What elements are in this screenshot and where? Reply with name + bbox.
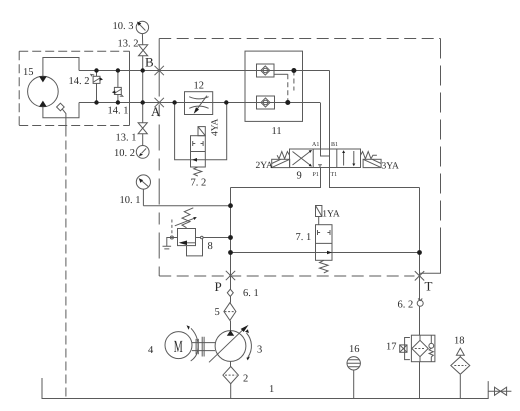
svg-text:4YA: 4YA [210,118,220,136]
svg-text:10. 3: 10. 3 [113,21,134,32]
svg-text:2: 2 [243,374,248,385]
svg-text:P1: P1 [313,172,319,178]
svg-text:7. 2: 7. 2 [191,178,207,189]
svg-text:13. 1: 13. 1 [116,133,137,144]
svg-text:1YA: 1YA [322,210,340,220]
svg-text:5: 5 [215,307,220,318]
svg-text:13. 2: 13. 2 [118,39,139,50]
svg-text:14. 1: 14. 1 [108,106,129,117]
svg-text:A: A [151,104,161,119]
svg-text:2YA: 2YA [256,161,274,171]
svg-text:7. 1: 7. 1 [296,232,312,243]
svg-text:3YA: 3YA [382,162,400,172]
svg-text:P: P [215,279,222,294]
svg-text:4: 4 [148,345,154,356]
svg-text:11: 11 [272,126,282,137]
svg-text:A1: A1 [312,142,319,148]
svg-text:17: 17 [386,342,397,353]
svg-text:3: 3 [257,345,262,356]
svg-text:18: 18 [454,336,465,347]
svg-text:15: 15 [23,67,34,78]
svg-text:16: 16 [349,344,360,355]
svg-text:10. 2: 10. 2 [114,148,135,159]
svg-text:T1: T1 [331,172,338,178]
svg-text:B: B [145,55,154,70]
svg-text:10. 1: 10. 1 [120,195,141,206]
svg-text:6. 1: 6. 1 [243,288,259,299]
svg-text:B1: B1 [331,142,338,148]
svg-text:14. 2: 14. 2 [69,76,90,87]
svg-text:12: 12 [194,81,205,92]
svg-text:M: M [174,337,183,356]
svg-text:8: 8 [208,241,213,252]
svg-text:9: 9 [297,171,302,182]
svg-text:T: T [425,279,433,294]
svg-text:6. 2: 6. 2 [398,300,414,311]
svg-text:1: 1 [269,384,274,395]
